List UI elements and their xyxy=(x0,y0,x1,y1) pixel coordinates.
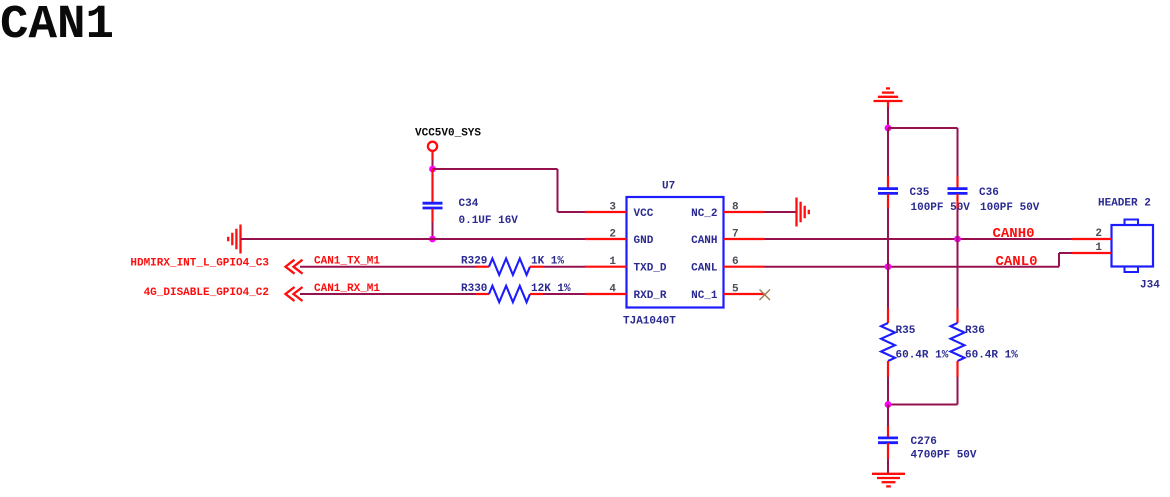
wire ground to U7 pin 2 xyxy=(241,238,586,240)
svg-text:R329: R329 xyxy=(461,255,487,267)
label R329 1K 1% xyxy=(461,255,564,267)
port chevron 1 xyxy=(286,260,303,274)
label C34 value xyxy=(459,198,519,227)
label C36 value xyxy=(979,187,1040,214)
header pin 1 stub xyxy=(1072,252,1112,254)
label C35 value xyxy=(910,187,971,214)
node CANL-C35 junction xyxy=(885,263,892,270)
svg-text:5: 5 xyxy=(732,284,739,296)
svg-text:C36: C36 xyxy=(979,187,999,199)
svg-text:R330: R330 xyxy=(461,283,487,295)
svg-text:7: 7 xyxy=(732,229,739,241)
svg-text:U7: U7 xyxy=(662,181,675,193)
svg-text:1: 1 xyxy=(1095,242,1102,254)
wire R330 to U7 pin 4 xyxy=(543,293,585,295)
wire R36 to bottom junction xyxy=(888,377,958,405)
wire VCC to U7 pin 3 xyxy=(433,169,586,212)
label R35 value xyxy=(896,325,949,362)
svg-text:C276: C276 xyxy=(911,436,937,448)
svg-text:C34: C34 xyxy=(459,198,479,210)
svg-text:6: 6 xyxy=(732,256,739,268)
svg-text:CANH: CANH xyxy=(691,235,717,247)
no-connect X pin 5 xyxy=(760,290,771,301)
node CANH-C36 junction xyxy=(954,236,961,243)
wire pin 8 to ground xyxy=(765,211,797,213)
wire junction down to C35 xyxy=(887,128,889,176)
wire CANL column down to R35 xyxy=(887,267,889,309)
svg-text:TJA1040T: TJA1040T xyxy=(623,316,676,328)
capacitor C276 xyxy=(878,426,898,459)
pin 8 stub xyxy=(724,211,765,213)
pin 5 stub xyxy=(724,293,765,295)
ground left of GND net xyxy=(228,225,240,254)
svg-text:2: 2 xyxy=(1095,228,1102,240)
svg-text:CAN1: CAN1 xyxy=(0,0,114,52)
ground bottom xyxy=(872,474,905,487)
wire CANH net xyxy=(765,238,1072,240)
svg-text:C35: C35 xyxy=(910,187,930,199)
svg-text:60.4R 1%: 60.4R 1% xyxy=(896,350,949,362)
svg-text:2: 2 xyxy=(609,229,616,241)
capacitor C36 xyxy=(948,176,968,208)
svg-text:1: 1 xyxy=(609,256,616,268)
svg-text:CANH0: CANH0 xyxy=(993,226,1035,242)
svg-text:TXD_D: TXD_D xyxy=(634,263,667,275)
resistor R330 xyxy=(476,286,543,302)
wire C36 to CANH xyxy=(957,208,959,239)
op-amp U7 box xyxy=(627,197,724,308)
svg-text:VCC: VCC xyxy=(634,208,654,220)
wire R329 to U7 pin 1 xyxy=(543,266,585,268)
svg-text:J34: J34 xyxy=(1140,280,1160,292)
label R36 value xyxy=(965,325,1018,362)
svg-text:4700PF 50V: 4700PF 50V xyxy=(911,450,977,462)
label R330 12K 1% xyxy=(461,283,571,295)
svg-text:RXD_R: RXD_R xyxy=(634,290,667,302)
node bottom junction xyxy=(885,401,892,408)
svg-text:100PF 50V: 100PF 50V xyxy=(980,202,1040,214)
label C276 value xyxy=(911,436,977,462)
resistor R35 xyxy=(881,309,895,378)
wire C34 to GND net xyxy=(432,222,434,239)
pin 3 stub xyxy=(585,211,627,213)
node VCC junction xyxy=(429,166,436,173)
wire C35 to CANL xyxy=(887,208,889,267)
svg-text:4G_DISABLE_GPIO4_C2: 4G_DISABLE_GPIO4_C2 xyxy=(144,287,269,299)
svg-text:4: 4 xyxy=(609,284,616,296)
svg-text:GND: GND xyxy=(634,235,654,247)
pin 7 stub xyxy=(724,238,765,240)
svg-text:HDMIRX_INT_L_GPIO4_C3: HDMIRX_INT_L_GPIO4_C3 xyxy=(130,257,269,269)
pin 1 stub xyxy=(585,266,627,268)
header pin numbers xyxy=(1095,228,1102,254)
pin numbers right xyxy=(732,202,739,296)
svg-text:CANL: CANL xyxy=(691,263,718,275)
node top junction xyxy=(885,125,892,132)
svg-text:NC_1: NC_1 xyxy=(691,290,718,302)
svg-text:0.1UF 16V: 0.1UF 16V xyxy=(459,215,519,227)
wire power stem xyxy=(432,160,434,169)
svg-text:R36: R36 xyxy=(965,325,985,337)
wire chevron1 to R329 xyxy=(300,266,476,268)
svg-text:100PF 50V: 100PF 50V xyxy=(911,202,971,214)
svg-text:1K 1%: 1K 1% xyxy=(531,255,564,267)
capacitor C34 xyxy=(423,169,443,222)
node C34-GND junction xyxy=(429,236,436,243)
wire CANL net xyxy=(765,253,1072,267)
svg-text:8: 8 xyxy=(732,202,739,214)
header pin 2 stub xyxy=(1072,238,1112,240)
resistor R329 xyxy=(476,259,543,275)
pin 2 stub xyxy=(585,238,627,240)
pin numbers left xyxy=(609,202,616,296)
wire C276 to bottom ground xyxy=(887,459,889,474)
wire junction to C276 xyxy=(887,405,889,427)
port chevron 2 xyxy=(286,287,303,301)
pin 4 stub xyxy=(585,293,627,295)
svg-text:HEADER 2: HEADER 2 xyxy=(1098,197,1151,209)
ground right of U7 pin 8 xyxy=(797,198,809,227)
wire top ground to junction xyxy=(887,107,889,128)
wire top branch to C36 column xyxy=(888,128,958,176)
pin 6 stub xyxy=(724,266,765,268)
wire chevron2 to R330 xyxy=(300,293,476,295)
svg-text:CAN1_TX_M1: CAN1_TX_M1 xyxy=(314,255,380,267)
power symbol VCC5V0_SYS xyxy=(415,127,481,160)
pin names U7 xyxy=(634,208,718,302)
svg-text:VCC5V0_SYS: VCC5V0_SYS xyxy=(415,127,481,139)
connector J34 HEADER 2 xyxy=(1112,220,1154,273)
capacitor C35 xyxy=(878,176,898,208)
wire R35 to bottom junction xyxy=(887,377,889,405)
svg-text:3: 3 xyxy=(609,202,616,214)
ground top xyxy=(874,88,903,108)
resistor R36 xyxy=(951,309,965,378)
svg-text:NC_2: NC_2 xyxy=(691,208,717,220)
wire CANH column down to R36 xyxy=(957,239,959,309)
svg-text:60.4R 1%: 60.4R 1% xyxy=(965,350,1018,362)
svg-text:CANL0: CANL0 xyxy=(996,254,1038,270)
svg-text:R35: R35 xyxy=(896,325,916,337)
